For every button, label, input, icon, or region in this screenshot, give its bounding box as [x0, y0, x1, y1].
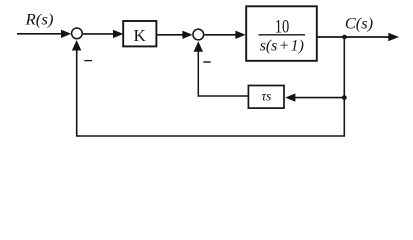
wire plant block to output	[317, 36, 389, 38]
arrowhead into block taus	[285, 93, 295, 101]
arrowhead into block K	[113, 30, 123, 38]
wire summing junction 2 to plant block	[204, 34, 235, 36]
arrowhead up into summing junction 2	[194, 41, 203, 52]
block G(s) = 10/s(s+1)	[246, 6, 317, 61]
arrowhead up into summing junction 1	[72, 40, 81, 51]
wire summing junction 1 to block K	[83, 33, 113, 35]
svg-text:s(s + 1): s(s + 1)	[260, 37, 304, 54]
arrowhead into summing junction 2	[182, 31, 192, 39]
wire inner feedback into block taus	[295, 97, 344, 99]
block taus	[248, 86, 284, 109]
svg-text:K: K	[133, 26, 146, 45]
summing junction 1	[72, 28, 83, 39]
wire block taus to below summing junction 2	[198, 52, 248, 97]
minus sign at summing junction 1	[84, 60, 92, 62]
wire outer feedback: down from takeoff, along bottom, to below junction 1	[77, 37, 345, 136]
wire block K to summing junction 2	[157, 34, 183, 36]
wire input to summing junction 1	[17, 33, 62, 35]
arrowhead into plant block	[235, 31, 245, 39]
node takeoff for inner feedback	[342, 95, 347, 100]
svg-text:R(s): R(s)	[24, 12, 53, 29]
arrowhead into summing junction 1	[61, 30, 71, 38]
summing junction 2	[193, 29, 204, 40]
svg-text:τs: τs	[261, 90, 271, 105]
fraction bar	[259, 34, 306, 36]
node takeoff point on output	[342, 35, 347, 40]
block K	[123, 21, 156, 46]
svg-text:C(s): C(s)	[345, 15, 373, 32]
arrowhead output	[388, 33, 399, 41]
minus sign at summing junction 2	[203, 61, 210, 63]
